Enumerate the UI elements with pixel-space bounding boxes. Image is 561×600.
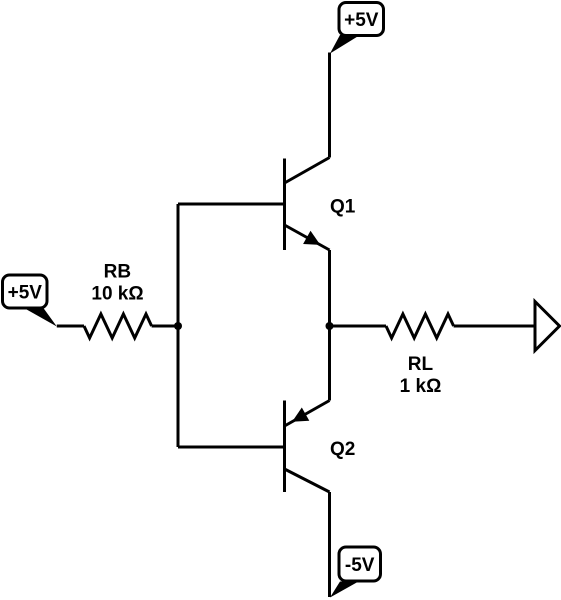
wire [178, 446, 285, 449]
transistor Q2 [285, 401, 330, 493]
wire [454, 325, 535, 328]
wire [330, 325, 387, 328]
power flag +5V (top) [330, 3, 384, 54]
svg-text:+5V: +5V [344, 10, 379, 31]
svg-text:RB: RB [104, 261, 131, 282]
wire [328, 250, 331, 401]
transistor Q1 [285, 158, 330, 251]
resistor RL [386, 314, 454, 338]
svg-text:Q1: Q1 [330, 196, 356, 217]
wire [177, 204, 180, 447]
wire [178, 203, 285, 206]
node (output) [326, 322, 334, 330]
wire [328, 492, 331, 597]
svg-text:RL: RL [408, 354, 434, 375]
power flag +5V (left) [3, 275, 57, 327]
svg-text:+5V: +5V [8, 283, 43, 304]
wire [57, 325, 84, 328]
output port [535, 302, 560, 351]
wire [152, 325, 178, 328]
svg-text:Q2: Q2 [330, 439, 355, 460]
svg-text:10 kΩ: 10 kΩ [91, 283, 143, 304]
svg-text:1 kΩ: 1 kΩ [400, 376, 442, 397]
svg-text:-5V: -5V [345, 555, 375, 576]
resistor RB [84, 314, 152, 338]
power flag -5V (bottom) [330, 547, 381, 598]
wire [328, 53, 331, 158]
node (base) [174, 322, 182, 330]
